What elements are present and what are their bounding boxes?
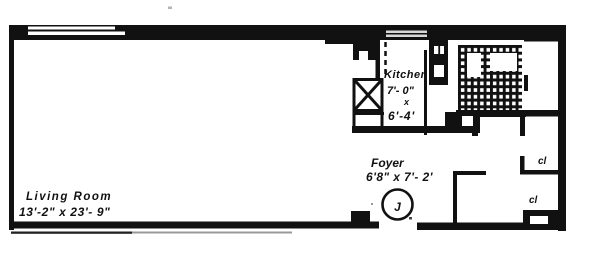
svg-text:6'-4': 6'-4': [388, 109, 415, 123]
svg-text:x: x: [403, 97, 410, 107]
svg-text:7'- 0": 7'- 0": [387, 85, 415, 97]
svg-text:J: J: [394, 200, 401, 214]
svg-text:13'-2" x 23'- 9": 13'-2" x 23'- 9": [19, 205, 110, 219]
svg-text:Living Room: Living Room: [26, 191, 112, 203]
svg-text:Kitchen: Kitchen: [384, 69, 428, 81]
svg-text:6'8" x 7'- 2': 6'8" x 7'- 2': [366, 170, 434, 184]
svg-text:cl: cl: [538, 156, 547, 167]
svg-text:Foyer: Foyer: [371, 156, 405, 170]
svg-text:cl: cl: [529, 195, 538, 206]
